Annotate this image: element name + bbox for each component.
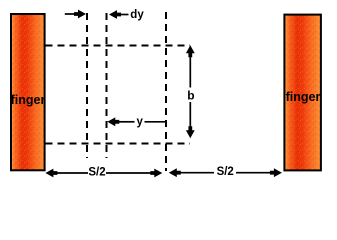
dimension y: arrow pointing left at strip xyxy=(107,117,134,126)
svg-text:S/2: S/2 xyxy=(88,166,105,178)
left finger electrode xyxy=(11,14,45,170)
svg-text:finger: finger xyxy=(11,93,46,107)
dimension b: lower arrow pointing down xyxy=(186,102,195,138)
dimension dy: left arrow pointing right xyxy=(65,10,86,19)
dimension S/2 left: arrowhead at finger edge pointing left xyxy=(45,169,88,178)
dimension b: upper arrow pointing up xyxy=(186,45,195,87)
dimension S/2 left: arrowhead at center line pointing right xyxy=(106,169,162,178)
svg-text:finger: finger xyxy=(286,90,321,104)
dashed construction line: center line between fingers xyxy=(165,12,167,171)
dashed construction line: strip left edge xyxy=(86,13,88,158)
svg-text:b: b xyxy=(187,89,194,103)
dimension dy: right arrow pointing left xyxy=(109,10,129,19)
right finger electrode xyxy=(284,15,321,171)
dimension S/2 right: arrowhead at right finger pointing right xyxy=(236,168,282,177)
svg-text:S/2: S/2 xyxy=(217,166,234,178)
dashed construction line: bottom horizontal xyxy=(45,143,190,145)
svg-text:y: y xyxy=(136,116,143,128)
dimension y: tail line to center line xyxy=(145,121,166,123)
dashed construction line: top horizontal xyxy=(45,45,190,47)
dashed construction line: strip right edge xyxy=(106,13,108,158)
dimension S/2 right: arrowhead at center line pointing left xyxy=(169,168,214,177)
svg-text:dy: dy xyxy=(130,9,144,21)
